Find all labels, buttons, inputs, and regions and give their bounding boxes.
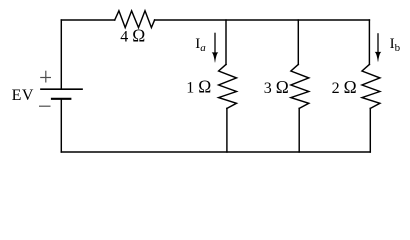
resistor 1Ω bbox=[219, 64, 237, 108]
wire branch-2 top (node to 3Ω) bbox=[297, 20, 299, 64]
svg-text:4 Ω: 4 Ω bbox=[120, 26, 145, 46]
resistor 3Ω bbox=[291, 64, 309, 108]
wire branch-1 top (node to 1Ω) bbox=[225, 20, 227, 64]
resistor 4Ω bbox=[115, 11, 155, 28]
wire right vertical top (node to 2Ω) bbox=[368, 20, 370, 64]
minus terminal of source bbox=[39, 105, 51, 107]
wire right vertical bottom bbox=[369, 108, 371, 152]
current arrow Ib bbox=[375, 33, 382, 62]
resistor 2Ω bbox=[362, 64, 380, 108]
svg-text:Ia: Ia bbox=[195, 36, 206, 54]
wire branch-2 bottom bbox=[298, 108, 300, 152]
wire top-left segment bbox=[61, 19, 114, 21]
wire branch-1 bottom bbox=[226, 108, 228, 152]
svg-text:2 Ω: 2 Ω bbox=[332, 77, 357, 97]
svg-text:Ib: Ib bbox=[390, 36, 401, 54]
wire top segment to right corner bbox=[155, 19, 370, 21]
voltage source EV: negative short plate bbox=[52, 98, 70, 100]
svg-text:1 Ω: 1 Ω bbox=[186, 77, 211, 97]
wire bottom segment bbox=[61, 151, 370, 153]
current arrow Ia bbox=[212, 33, 219, 63]
wire left vertical (top, into battery) bbox=[60, 20, 62, 89]
svg-text:EV: EV bbox=[12, 87, 34, 104]
plus terminal of source bbox=[40, 71, 51, 83]
wire left vertical (below battery) bbox=[60, 100, 62, 152]
svg-text:3 Ω: 3 Ω bbox=[264, 77, 289, 97]
voltage source EV: positive long plate bbox=[41, 88, 82, 90]
